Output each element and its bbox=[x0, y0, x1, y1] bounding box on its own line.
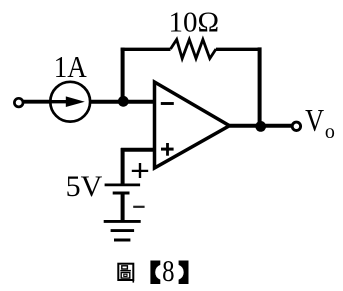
svg-text:V: V bbox=[305, 104, 324, 139]
svg-text:o: o bbox=[325, 121, 335, 143]
svg-text:5V: 5V bbox=[66, 170, 103, 203]
svg-text:10Ω: 10Ω bbox=[169, 7, 220, 39]
svg-text:1A: 1A bbox=[54, 49, 88, 84]
svg-text:8: 8 bbox=[162, 253, 174, 288]
